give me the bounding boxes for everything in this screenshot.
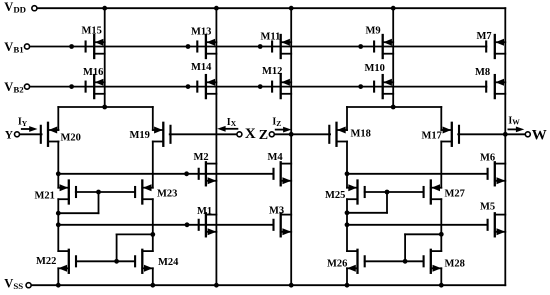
svg-text:IZ: IZ	[272, 117, 281, 128]
svg-text:M10: M10	[365, 63, 385, 74]
svg-text:M16: M16	[83, 67, 103, 78]
svg-text:M18: M18	[351, 129, 371, 140]
svg-text:M1: M1	[197, 206, 212, 217]
svg-text:M20: M20	[61, 133, 81, 144]
svg-text:W: W	[532, 127, 547, 143]
svg-text:M15: M15	[82, 26, 102, 37]
svg-text:M19: M19	[130, 130, 150, 141]
svg-text:IY: IY	[18, 117, 28, 128]
svg-text:IW: IW	[508, 115, 520, 126]
svg-text:M26: M26	[327, 258, 347, 269]
svg-text:M27: M27	[445, 189, 465, 200]
svg-text:M11: M11	[261, 32, 281, 43]
svg-text:M22: M22	[36, 256, 56, 267]
svg-text:M8: M8	[475, 67, 490, 78]
svg-text:VB2: VB2	[4, 80, 24, 95]
svg-text:M21: M21	[35, 191, 55, 202]
svg-text:VDD: VDD	[4, 0, 26, 15]
svg-text:M5: M5	[480, 202, 495, 213]
svg-text:Y: Y	[5, 129, 14, 141]
svg-text:Z: Z	[259, 128, 268, 143]
svg-text:M28: M28	[445, 258, 465, 269]
svg-text:M2: M2	[194, 152, 209, 163]
svg-text:M14: M14	[191, 62, 212, 73]
svg-text:VB1: VB1	[4, 40, 23, 55]
svg-text:M9: M9	[366, 26, 381, 37]
svg-text:M7: M7	[477, 31, 492, 42]
svg-text:M25: M25	[325, 190, 345, 201]
svg-text:M3: M3	[269, 206, 284, 217]
svg-text:M17: M17	[422, 131, 442, 142]
svg-text:M4: M4	[268, 152, 284, 163]
svg-text:M13: M13	[191, 27, 211, 38]
svg-text:M23: M23	[157, 189, 177, 200]
svg-text:M24: M24	[158, 257, 179, 268]
svg-text:IX: IX	[227, 117, 237, 128]
svg-text:M12: M12	[262, 66, 282, 77]
svg-text:M6: M6	[480, 153, 495, 164]
svg-text:X: X	[245, 126, 256, 142]
svg-text:VSS: VSS	[4, 276, 23, 291]
